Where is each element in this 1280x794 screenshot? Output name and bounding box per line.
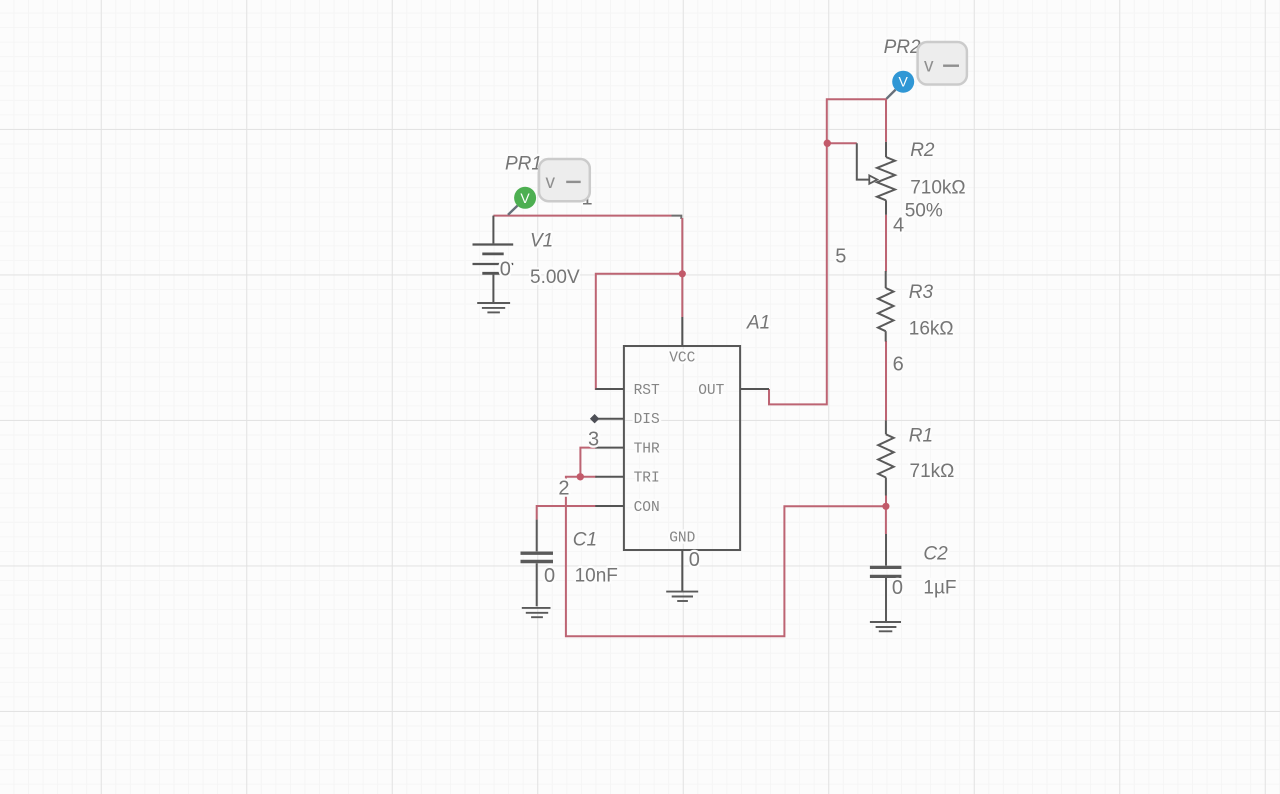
battery V1 <box>473 216 514 302</box>
node junction VCC/RST <box>679 270 686 277</box>
wire net2 long loop to TRI <box>566 477 886 637</box>
wire net1 gray corner segment <box>672 216 682 219</box>
svg-text:DIS: DIS <box>634 412 660 428</box>
pin OUT <box>740 388 769 390</box>
svg-text:C2: C2 <box>923 544 948 565</box>
wire net5 wiper branch <box>827 142 857 144</box>
svg-text:R3: R3 <box>909 282 934 303</box>
node junction TRI <box>577 473 584 480</box>
svg-text:CON: CON <box>634 500 660 516</box>
wire net6 R3 to R1 <box>885 341 887 420</box>
svg-text:R2: R2 <box>910 140 935 161</box>
ground (C2) <box>870 622 901 631</box>
svg-text:TRI: TRI <box>634 471 660 487</box>
wire net2 R1 to junction <box>885 496 887 507</box>
svg-text:16kΩ: 16kΩ <box>909 318 954 339</box>
pin RST <box>595 388 624 390</box>
wire net CON / C1 <box>537 506 597 520</box>
svg-text:PR2: PR2 <box>884 37 921 58</box>
probe PR1 circle <box>514 187 536 209</box>
svg-text:V: V <box>899 74 909 90</box>
svg-text:V: V <box>520 190 530 206</box>
wiper arrow R2 <box>869 175 877 183</box>
svg-text:C1: C1 <box>573 529 597 550</box>
svg-text:THR: THR <box>634 441 660 457</box>
svg-text:R1: R1 <box>909 426 933 447</box>
svg-text:4: 4 <box>893 215 904 237</box>
svg-text:71kΩ: 71kΩ <box>910 461 955 482</box>
probe PR2 tail <box>886 90 895 99</box>
svg-text:v: v <box>924 55 934 76</box>
svg-text:5: 5 <box>835 246 846 268</box>
svg-text:RST: RST <box>634 383 660 399</box>
svg-text:710kΩ: 710kΩ <box>910 178 965 199</box>
resistor R1 <box>878 420 894 495</box>
pin DIS <box>595 418 624 420</box>
svg-text:0: 0 <box>892 577 903 599</box>
capacitor C2 <box>870 534 902 621</box>
svg-text:1µF: 1µF <box>923 577 956 598</box>
svg-text:VCC: VCC <box>669 350 695 366</box>
svg-text:3: 3 <box>588 429 599 451</box>
svg-text:A1: A1 <box>746 313 770 334</box>
node junction OUT/wiper <box>824 140 831 147</box>
pin THR <box>595 447 624 449</box>
pin CON <box>595 505 624 507</box>
ground (A1 GND) <box>666 592 698 601</box>
probe PR2 circle <box>892 71 914 93</box>
probe PR2 box <box>918 42 967 85</box>
svg-text:0: 0 <box>544 565 555 587</box>
svg-text:0: 0 <box>500 259 511 281</box>
svg-text:PR1: PR1 <box>505 154 542 175</box>
op-amp U1 555 timer body A1 <box>624 346 740 550</box>
wire net1 down to VCC <box>681 218 683 317</box>
wire net1 branch to RST <box>596 274 683 389</box>
pin TRI <box>595 476 624 478</box>
wire net4 R2 to R3 <box>885 215 887 272</box>
wire net5 OUT to pot <box>769 99 886 404</box>
resistor R2 (potentiometer) <box>857 142 895 215</box>
probe PR1 tail <box>508 206 518 215</box>
ground (V1) <box>477 303 510 312</box>
wire net2 junction to C2 <box>885 506 887 534</box>
svg-text:0: 0 <box>689 549 700 571</box>
svg-text:6: 6 <box>893 354 904 376</box>
pin VCC <box>681 317 683 346</box>
wire net1 battery top <box>493 215 671 217</box>
svg-text:V1: V1 <box>530 231 553 252</box>
wire net2 THR branch <box>580 448 596 477</box>
ground (C1) <box>522 608 551 617</box>
node junction R1/C2 <box>882 503 889 510</box>
svg-text:v: v <box>546 172 556 193</box>
unconnected marker DIS diamond <box>590 414 599 423</box>
svg-text:GND: GND <box>669 531 695 547</box>
svg-text:5.00V: 5.00V <box>530 267 580 288</box>
capacitor C1 <box>521 520 554 607</box>
svg-text:50%: 50% <box>905 201 943 222</box>
pin GND <box>681 550 683 591</box>
svg-text:2: 2 <box>558 478 569 500</box>
svg-text:OUT: OUT <box>698 383 724 399</box>
resistor R3 <box>878 271 894 342</box>
probe PR1 box <box>539 159 590 201</box>
svg-text:10nF: 10nF <box>575 566 618 587</box>
